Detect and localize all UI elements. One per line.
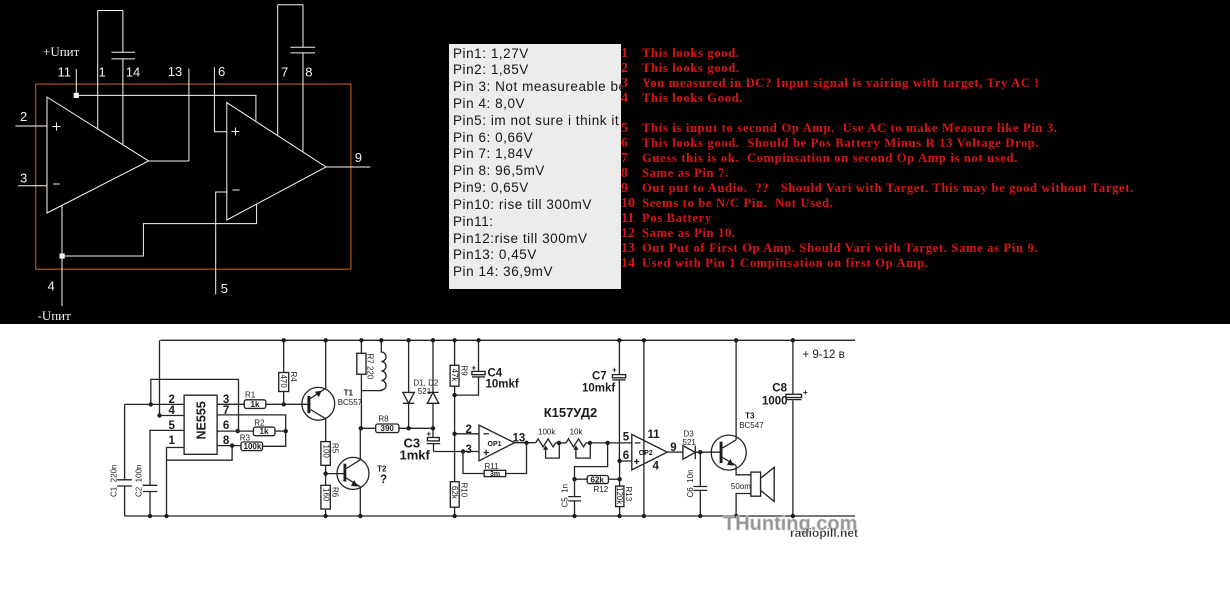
wire (T2 collector up to R7/R8 node)	[359, 428, 361, 460]
pin label 5 (OP2)	[623, 431, 630, 443]
op-amp U2 plus input marker	[232, 128, 240, 136]
junction (C6 at ground rail)	[698, 514, 702, 518]
svg-text:1k: 1k	[251, 400, 260, 409]
wire (speaker return to ground)	[736, 494, 751, 517]
pin label 8	[305, 65, 312, 80]
pin 11 wire	[75, 69, 77, 93]
resistor R11 3m (feedback)	[463, 443, 527, 478]
svg-text:C5 1n: C5 1n	[561, 484, 570, 508]
transistor T1 BC557	[302, 387, 363, 420]
wire (pin2 to pin6 over-the-top link)	[151, 379, 239, 431]
inductor L1 search coil	[361, 340, 386, 390]
svg-text:10mkf: 10mkf	[582, 383, 615, 395]
svg-text:9: 9	[355, 150, 362, 165]
junction (R10 at ground rail)	[452, 514, 456, 518]
pin label 3	[223, 394, 229, 406]
svg-text:62k: 62k	[450, 486, 459, 500]
pin label 7	[223, 405, 229, 417]
svg-text:BC557: BC557	[338, 398, 363, 407]
junction (coil at top rail)	[379, 338, 383, 342]
wire (T3 emitter to speaker)	[736, 466, 751, 475]
pin label 14	[126, 65, 140, 80]
wire (OP1 output)	[514, 442, 535, 444]
node B (feedback junction square)	[60, 254, 65, 259]
wire (rail feed to NE555 pin 4)	[159, 340, 161, 415]
junction (pin 6 node)	[617, 459, 621, 463]
svg-text:2: 2	[20, 109, 27, 124]
power rail +9-12V (top)	[160, 339, 855, 341]
transistor T2	[337, 457, 387, 489]
pin label 6	[218, 64, 225, 79]
pin 5 wire	[150, 430, 184, 485]
pin 9 wire (output)	[326, 166, 370, 168]
svg-text:4: 4	[48, 279, 55, 294]
svg-text:C7: C7	[592, 371, 607, 383]
svg-text:C6 10n: C6 10n	[686, 469, 695, 497]
junction (C8 at ground rail)	[791, 514, 795, 518]
pin label 2	[169, 394, 175, 406]
svg-text:NE555: NE555	[195, 401, 209, 439]
wire (cap C1 top loop)	[98, 10, 123, 12]
junction (100k right end)	[557, 441, 561, 445]
resistor R12 62k	[575, 476, 620, 494]
junction (R5/R6 to T2 base)	[323, 471, 327, 475]
svg-text:R13: R13	[624, 487, 633, 502]
svg-text:R8: R8	[378, 415, 389, 424]
pin label 13 (OP1 out)	[513, 433, 526, 445]
junction (D1 at top rail)	[406, 338, 410, 342]
wire (C3 to op amp pin 3)	[434, 451, 480, 453]
svg-text:14: 14	[126, 65, 140, 80]
junction (D2/C3 at R8 line)	[431, 426, 435, 430]
svg-text:4: 4	[653, 460, 660, 472]
watermark THunting.com	[723, 513, 857, 535]
junction (C2 at ground rail)	[148, 514, 152, 518]
svg-text:1k: 1k	[260, 427, 269, 436]
pin label 4 (OP2)	[653, 460, 660, 472]
junction (pin 4 at ground rail)	[642, 514, 646, 518]
svg-text:1: 1	[169, 435, 176, 447]
label D1, D2	[413, 379, 438, 388]
pin 7 wire	[277, 5, 279, 136]
svg-text:R4: R4	[289, 372, 298, 383]
svg-text:T3: T3	[745, 411, 755, 420]
svg-text:470: 470	[279, 375, 288, 389]
pin 1 wire	[97, 11, 99, 129]
capacitor C1 (compensation, pins 1-14)	[112, 11, 135, 145]
resistor R8 390	[361, 415, 433, 434]
pin label 5	[221, 281, 228, 296]
svg-text:R10: R10	[460, 483, 469, 498]
diode D2	[427, 340, 438, 437]
wire (tap down to C5/R12)	[575, 443, 608, 479]
resistor R1 1k	[244, 391, 265, 409]
svg-text:6: 6	[623, 450, 629, 462]
svg-text:OP1: OP1	[488, 441, 502, 448]
capacitor C2 100n	[135, 465, 158, 516]
pin 13 wire	[188, 69, 190, 161]
wire (to T2 base)	[326, 473, 344, 475]
pin 8 wire	[217, 445, 241, 447]
capacitor C8 1000	[762, 340, 808, 516]
pin 1 wire	[167, 448, 185, 517]
IC boundary box (orange)	[36, 84, 351, 269]
svg-text:521: 521	[418, 387, 432, 396]
junction (tap to C5/R12)	[605, 441, 609, 445]
junction (output / R11 right leg)	[524, 441, 528, 445]
pin label 11	[58, 65, 72, 80]
junction (pin 4 feed)	[157, 413, 161, 417]
svg-text:+Uпит: +Uпит	[43, 44, 80, 59]
pin label 5	[169, 420, 176, 432]
wire (between pots)	[556, 442, 566, 444]
svg-text:T2: T2	[377, 465, 387, 474]
pin label 2	[20, 109, 27, 124]
junction (R4 at top rail)	[282, 338, 286, 342]
resistor R10 62k	[450, 482, 468, 516]
wire (to OP2 pin 5)	[586, 442, 632, 444]
capacitor C4 10mkf	[455, 340, 519, 395]
wire (T3 collector to rail)	[735, 340, 737, 440]
junction (R7 at top rail)	[359, 338, 363, 342]
resistor R2 1k	[253, 418, 275, 436]
resistor R13 120k	[615, 461, 633, 516]
svg-text:R6: R6	[331, 487, 340, 498]
resistor R9 47k	[450, 340, 468, 481]
wire (top supply run from node to second op amp)	[79, 95, 256, 120]
junction (C5 at ground rail)	[572, 514, 576, 518]
junction (C5/R12 node)	[572, 477, 576, 481]
pin 3 wire	[18, 185, 47, 187]
resistor R3 100k	[240, 434, 263, 452]
svg-text:521: 521	[683, 438, 697, 447]
pin 4 wire	[61, 259, 63, 306]
svg-text:11: 11	[58, 65, 72, 80]
speaker 50om	[731, 467, 774, 501]
potentiometer 10k	[566, 428, 590, 458]
junction (pin3/R11 node)	[461, 449, 465, 453]
svg-text:T1: T1	[344, 389, 354, 398]
junction (R13 at ground rail)	[617, 514, 621, 518]
junction (R9 at top rail)	[452, 338, 456, 342]
resistor R5 100	[321, 442, 340, 486]
wire (T2 emitter to ground rail)	[359, 487, 361, 516]
svg-text:R11: R11	[485, 462, 500, 471]
junction (T3 collector at rail)	[734, 338, 738, 342]
svg-text:R9: R9	[459, 366, 468, 377]
pin 2 wire	[16, 125, 48, 127]
pin 5 wire	[216, 192, 227, 295]
pin label 8	[223, 435, 230, 447]
junction (speaker at ground rail)	[734, 514, 738, 518]
svg-text:50om: 50om	[731, 482, 751, 491]
svg-text:К157УД2: К157УД2	[544, 405, 598, 420]
pin 6 wire	[217, 430, 253, 432]
pin label 4	[169, 405, 176, 417]
pin label 3 (OP1)	[466, 444, 472, 456]
svg-text:120k: 120k	[615, 487, 624, 505]
op-amp U2 minus input marker	[233, 189, 240, 191]
wire (feedback run node B to op amp 2)	[65, 204, 257, 256]
svg-text:C2 100n: C2 100n	[135, 465, 144, 497]
wire (cap C2 top loop)	[278, 4, 303, 6]
svg-text:5: 5	[169, 420, 176, 432]
watermark radiopill.net	[790, 526, 858, 540]
svg-text:C1 220n: C1 220n	[110, 465, 119, 497]
svg-text:6: 6	[218, 64, 225, 79]
junction (C7 at top rail)	[617, 338, 621, 342]
svg-text:5: 5	[221, 281, 228, 296]
-Upit power label	[38, 308, 72, 323]
svg-text:10mkf: 10mkf	[486, 379, 519, 391]
ground rail (bottom)	[125, 515, 855, 517]
svg-text:3: 3	[466, 444, 472, 456]
pin 2 wire	[125, 403, 185, 405]
junction (T2 emitter at rail)	[358, 514, 362, 518]
pin 3 wire	[217, 403, 244, 405]
diode D3	[683, 430, 697, 460]
svg-text:100k: 100k	[538, 428, 556, 437]
wire (pin 2 line to op amp)	[455, 433, 479, 435]
capacitor C5 1n	[561, 479, 582, 516]
pin label 11 (OP2)	[648, 429, 661, 441]
svg-text:R7 220: R7 220	[365, 354, 374, 380]
junction (D3/C6/T3 node)	[698, 450, 702, 454]
svg-text:R2: R2	[254, 418, 265, 427]
junction (R7/T2/R8 node)	[359, 426, 363, 430]
op-amp U1 minus input marker	[53, 183, 60, 185]
svg-text:11: 11	[648, 429, 661, 441]
resistor R6 160	[321, 485, 340, 516]
svg-text:8: 8	[305, 65, 312, 80]
svg-text:-Uпит: -Uпит	[38, 308, 72, 323]
svg-text:R5: R5	[331, 443, 340, 454]
svg-text:OP2: OP2	[639, 450, 653, 457]
junction (10k right end)	[588, 441, 592, 445]
junction (pin 2 link)	[149, 402, 153, 406]
resistor R4 470	[279, 340, 298, 404]
junction (R4 bottom / R1 / T1 base)	[282, 402, 286, 406]
svg-text:5: 5	[623, 431, 630, 443]
junction (pin 1 to ground rail)	[164, 514, 168, 518]
wire (T1 emitter to rail)	[325, 340, 327, 388]
wire (pin 6 to OP2)	[620, 460, 632, 462]
svg-text:13: 13	[168, 64, 182, 79]
svg-text:10k: 10k	[570, 428, 584, 437]
wire (OP2 output to D3)	[667, 451, 683, 453]
pin 7 wire	[217, 415, 286, 431]
wire (OP2 supply pins 11/4 vertical)	[643, 340, 645, 516]
label 521 (D1 D2 type)	[418, 387, 432, 396]
diode D1	[403, 340, 414, 428]
pin label 4	[48, 279, 55, 294]
junction (R2 / pin7)	[284, 429, 288, 433]
pin label 9	[355, 150, 362, 165]
transistor T3 BC547	[711, 411, 764, 470]
wire (R1 to T1 base)	[266, 403, 308, 405]
svg-text:100k: 100k	[244, 442, 262, 451]
svg-text:+: +	[427, 430, 432, 439]
pin label 2 (OP1)	[466, 424, 472, 436]
junction (D2 at top rail)	[431, 338, 435, 342]
op-amp U1 (first op amp triangle)	[47, 97, 149, 213]
svg-text:47k: 47k	[450, 369, 459, 383]
svg-text:radiopill.net: radiopill.net	[790, 526, 858, 540]
pin 6 wire	[214, 67, 226, 132]
junction (C4 at top rail)	[476, 338, 480, 342]
wire (pin 8 down-left to pin 1 ground run)	[167, 446, 233, 461]
junction (R6 at ground rail)	[323, 514, 327, 518]
junction (D1 at R8 line)	[406, 426, 410, 430]
svg-text:7: 7	[281, 65, 288, 80]
op-amp OP2	[632, 434, 668, 470]
svg-text:C8: C8	[772, 383, 787, 395]
junction (T1 emitter at rail)	[324, 338, 328, 342]
op-amp OP1	[479, 425, 514, 461]
svg-text:1: 1	[99, 65, 106, 80]
+Upit power label	[43, 44, 80, 59]
junction (C8 at top rail)	[791, 338, 795, 342]
pin label 6	[223, 420, 229, 432]
capacitor C6 10n	[686, 452, 707, 516]
svg-text:1000: 1000	[762, 396, 788, 408]
svg-text:BC547: BC547	[739, 421, 764, 430]
junction (pin 11 at top rail)	[642, 338, 646, 342]
capacitor C1 220n	[110, 404, 132, 516]
svg-text:+: +	[472, 364, 477, 373]
pin label 13	[168, 64, 182, 79]
wire (R2 right to pin 7 drop)	[275, 430, 286, 432]
pin label 3	[20, 171, 27, 186]
svg-text:R12: R12	[594, 485, 609, 494]
red annotation numbers and notes	[621, 46, 628, 61]
pin label 1	[169, 435, 176, 447]
IC NE555	[184, 395, 217, 454]
junction (C4 return)	[452, 393, 456, 397]
svg-text:+: +	[803, 388, 808, 397]
pin label 1	[99, 65, 106, 80]
svg-text:100: 100	[321, 445, 330, 459]
wire (op amp 1 lower lead to node B)	[61, 205, 63, 253]
wire (R3 right up to R2/pin7 node)	[263, 431, 286, 446]
potentiometer 100k	[536, 428, 560, 458]
capacitor C7 10mkf	[582, 340, 626, 461]
pin label 9 (OP2 out)	[670, 442, 676, 454]
wire (op amp 1 output)	[149, 160, 189, 162]
svg-text:7: 7	[223, 405, 229, 417]
wire (T1 collector to R5)	[325, 419, 327, 442]
svg-text:3m: 3m	[490, 471, 500, 478]
svg-text:1mkf: 1mkf	[400, 448, 431, 463]
junction (pin 8 branch)	[230, 443, 234, 447]
op-amp U1 plus input marker	[53, 123, 61, 131]
svg-text:2: 2	[466, 424, 472, 436]
svg-text:?: ?	[380, 474, 387, 486]
svg-text:4: 4	[169, 405, 176, 417]
pin 4 wire	[160, 415, 185, 417]
svg-text:R1: R1	[245, 391, 256, 400]
label +9-12V supply	[803, 349, 845, 361]
pin label 6 (OP2)	[623, 450, 629, 462]
pin label 7	[281, 65, 288, 80]
svg-text:6: 6	[223, 420, 229, 432]
junction (pin 6 link)	[236, 429, 240, 433]
capacitor C2 (compensation, pins 7-8)	[290, 5, 315, 152]
label K157UD2	[544, 405, 598, 420]
svg-text:3: 3	[20, 171, 27, 186]
svg-text:62k: 62k	[591, 476, 605, 485]
junction (R12 at R13)	[617, 477, 621, 481]
op-amp U2 (second op amp triangle)	[227, 103, 326, 220]
svg-text:390: 390	[381, 424, 395, 433]
node A (pin 11 junction square)	[74, 93, 79, 98]
svg-text:+: +	[612, 366, 617, 375]
svg-text:8: 8	[223, 435, 230, 447]
svg-text:160: 160	[321, 488, 330, 502]
wire (D3 to T3 base)	[695, 451, 719, 453]
junction (pin 2 tap)	[452, 432, 456, 436]
resistor R7 220	[357, 340, 375, 428]
capacitor C3 1mkf	[400, 430, 441, 463]
svg-text:+ 9-12 в: + 9-12 в	[803, 349, 845, 361]
